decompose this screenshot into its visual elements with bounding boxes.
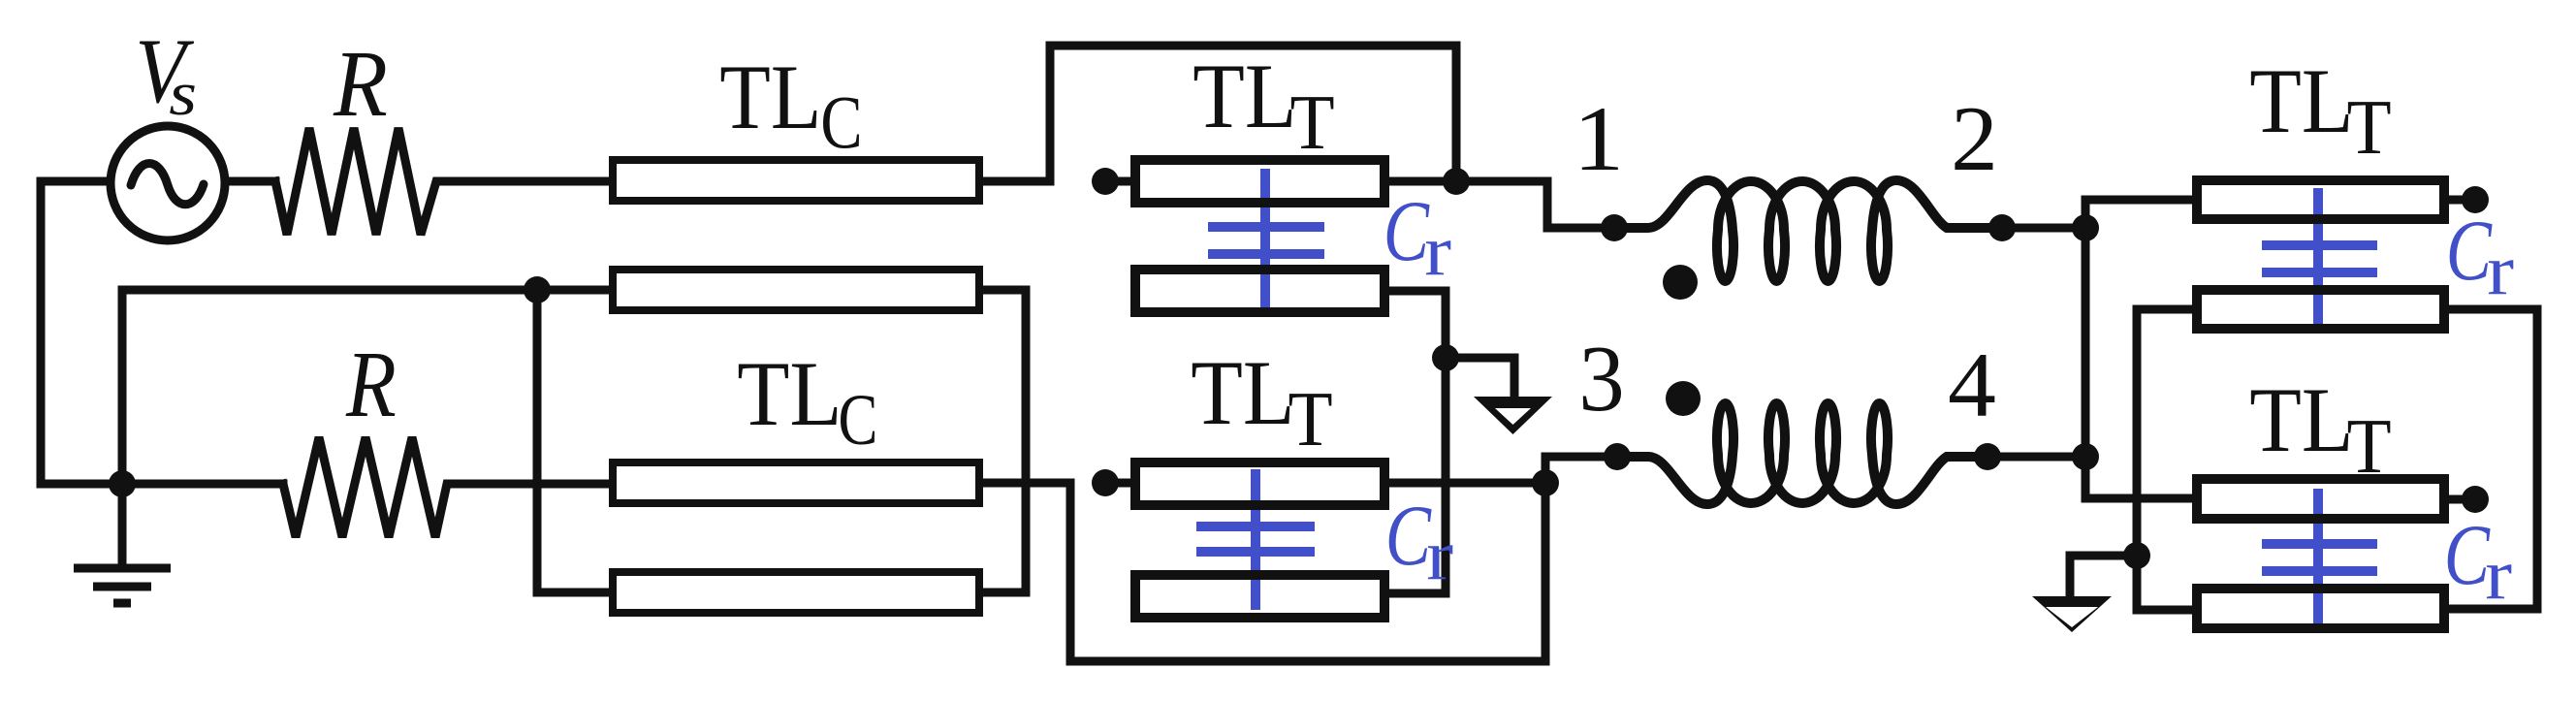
svg-text:3: 3	[1578, 327, 1625, 431]
svg-text:2: 2	[1951, 87, 1998, 190]
svg-text:C: C	[1385, 489, 1432, 584]
svg-text:TL: TL	[2249, 368, 2353, 471]
svg-text:T: T	[2347, 404, 2392, 490]
svg-text:TL: TL	[2249, 49, 2353, 152]
svg-text:C: C	[1383, 184, 1430, 279]
svg-text:C: C	[820, 80, 862, 164]
svg-text:T: T	[1290, 80, 1335, 166]
svg-text:1: 1	[1574, 87, 1625, 190]
svg-text:r: r	[1426, 517, 1453, 596]
svg-text:TL: TL	[719, 46, 821, 148]
svg-text:T: T	[1288, 377, 1333, 462]
svg-text:C: C	[2444, 508, 2491, 603]
svg-text:4: 4	[1948, 334, 1996, 436]
svg-text:T: T	[2347, 85, 2392, 171]
svg-text:TL: TL	[1193, 45, 1296, 147]
svg-text:C: C	[839, 380, 878, 461]
svg-text:TL: TL	[737, 342, 842, 445]
svg-text:s: s	[169, 59, 197, 129]
svg-text:R: R	[333, 32, 388, 137]
svg-text:TL: TL	[1191, 341, 1294, 444]
svg-text:C: C	[2446, 204, 2493, 299]
svg-text:r: r	[1424, 212, 1451, 292]
svg-text:r: r	[2487, 232, 2514, 311]
svg-text:R: R	[345, 333, 397, 437]
svg-text:r: r	[2485, 536, 2512, 616]
